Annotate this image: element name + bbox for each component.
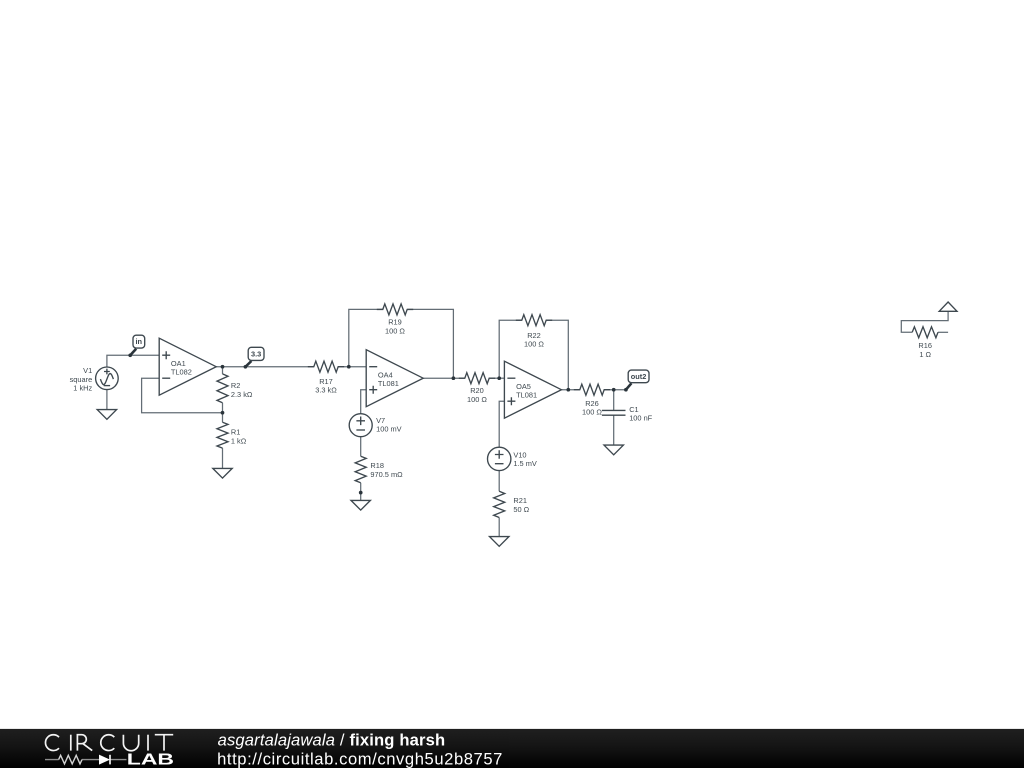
svg-text:3.3 kΩ: 3.3 kΩ: [315, 386, 337, 395]
svg-text:100 Ω: 100 Ω: [524, 340, 544, 349]
svg-text:R17: R17: [319, 377, 333, 386]
svg-text:1 Ω: 1 Ω: [919, 350, 931, 359]
svg-text:http://circuitlab.com/cnvgh5u2: http://circuitlab.com/cnvgh5u2b8757: [217, 749, 502, 768]
svg-text:100 Ω: 100 Ω: [385, 327, 405, 336]
svg-text:R21: R21: [513, 496, 527, 505]
svg-text:1 kHz: 1 kHz: [73, 384, 92, 393]
svg-text:asgartalajawala / fixing harsh: asgartalajawala / fixing harsh: [218, 730, 446, 749]
svg-text:R20: R20: [470, 386, 484, 395]
svg-text:970.5 mΩ: 970.5 mΩ: [370, 470, 403, 479]
svg-text:V1: V1: [83, 366, 92, 375]
svg-text:100 Ω: 100 Ω: [467, 395, 487, 404]
svg-text:1.5 mV: 1.5 mV: [513, 459, 536, 468]
svg-text:R1: R1: [231, 428, 240, 437]
svg-text:R19: R19: [388, 318, 402, 327]
svg-text:2.3 kΩ: 2.3 kΩ: [231, 390, 253, 399]
svg-text:R16: R16: [918, 341, 932, 350]
svg-text:OA5: OA5: [516, 382, 531, 391]
svg-text:square: square: [70, 375, 93, 384]
svg-text:R26: R26: [585, 399, 599, 408]
svg-text:R22: R22: [527, 331, 541, 340]
svg-text:LAB: LAB: [127, 752, 174, 768]
svg-text:100 mV: 100 mV: [376, 425, 402, 434]
svg-text:TL082: TL082: [171, 368, 192, 377]
svg-text:OA4: OA4: [378, 371, 393, 380]
svg-text:OA1: OA1: [171, 359, 186, 368]
svg-text:in: in: [136, 337, 143, 346]
svg-text:R2: R2: [231, 381, 240, 390]
svg-text:TL081: TL081: [378, 379, 399, 388]
svg-text:3.3: 3.3: [251, 349, 261, 358]
svg-text:100 nF: 100 nF: [629, 413, 652, 422]
svg-text:TL081: TL081: [516, 391, 537, 400]
svg-text:50 Ω: 50 Ω: [513, 505, 529, 514]
svg-text:V7: V7: [376, 416, 385, 425]
svg-text:100 Ω: 100 Ω: [582, 408, 602, 417]
svg-text:R18: R18: [370, 461, 384, 470]
svg-text:1 kΩ: 1 kΩ: [231, 436, 247, 445]
svg-text:out2: out2: [631, 372, 647, 381]
